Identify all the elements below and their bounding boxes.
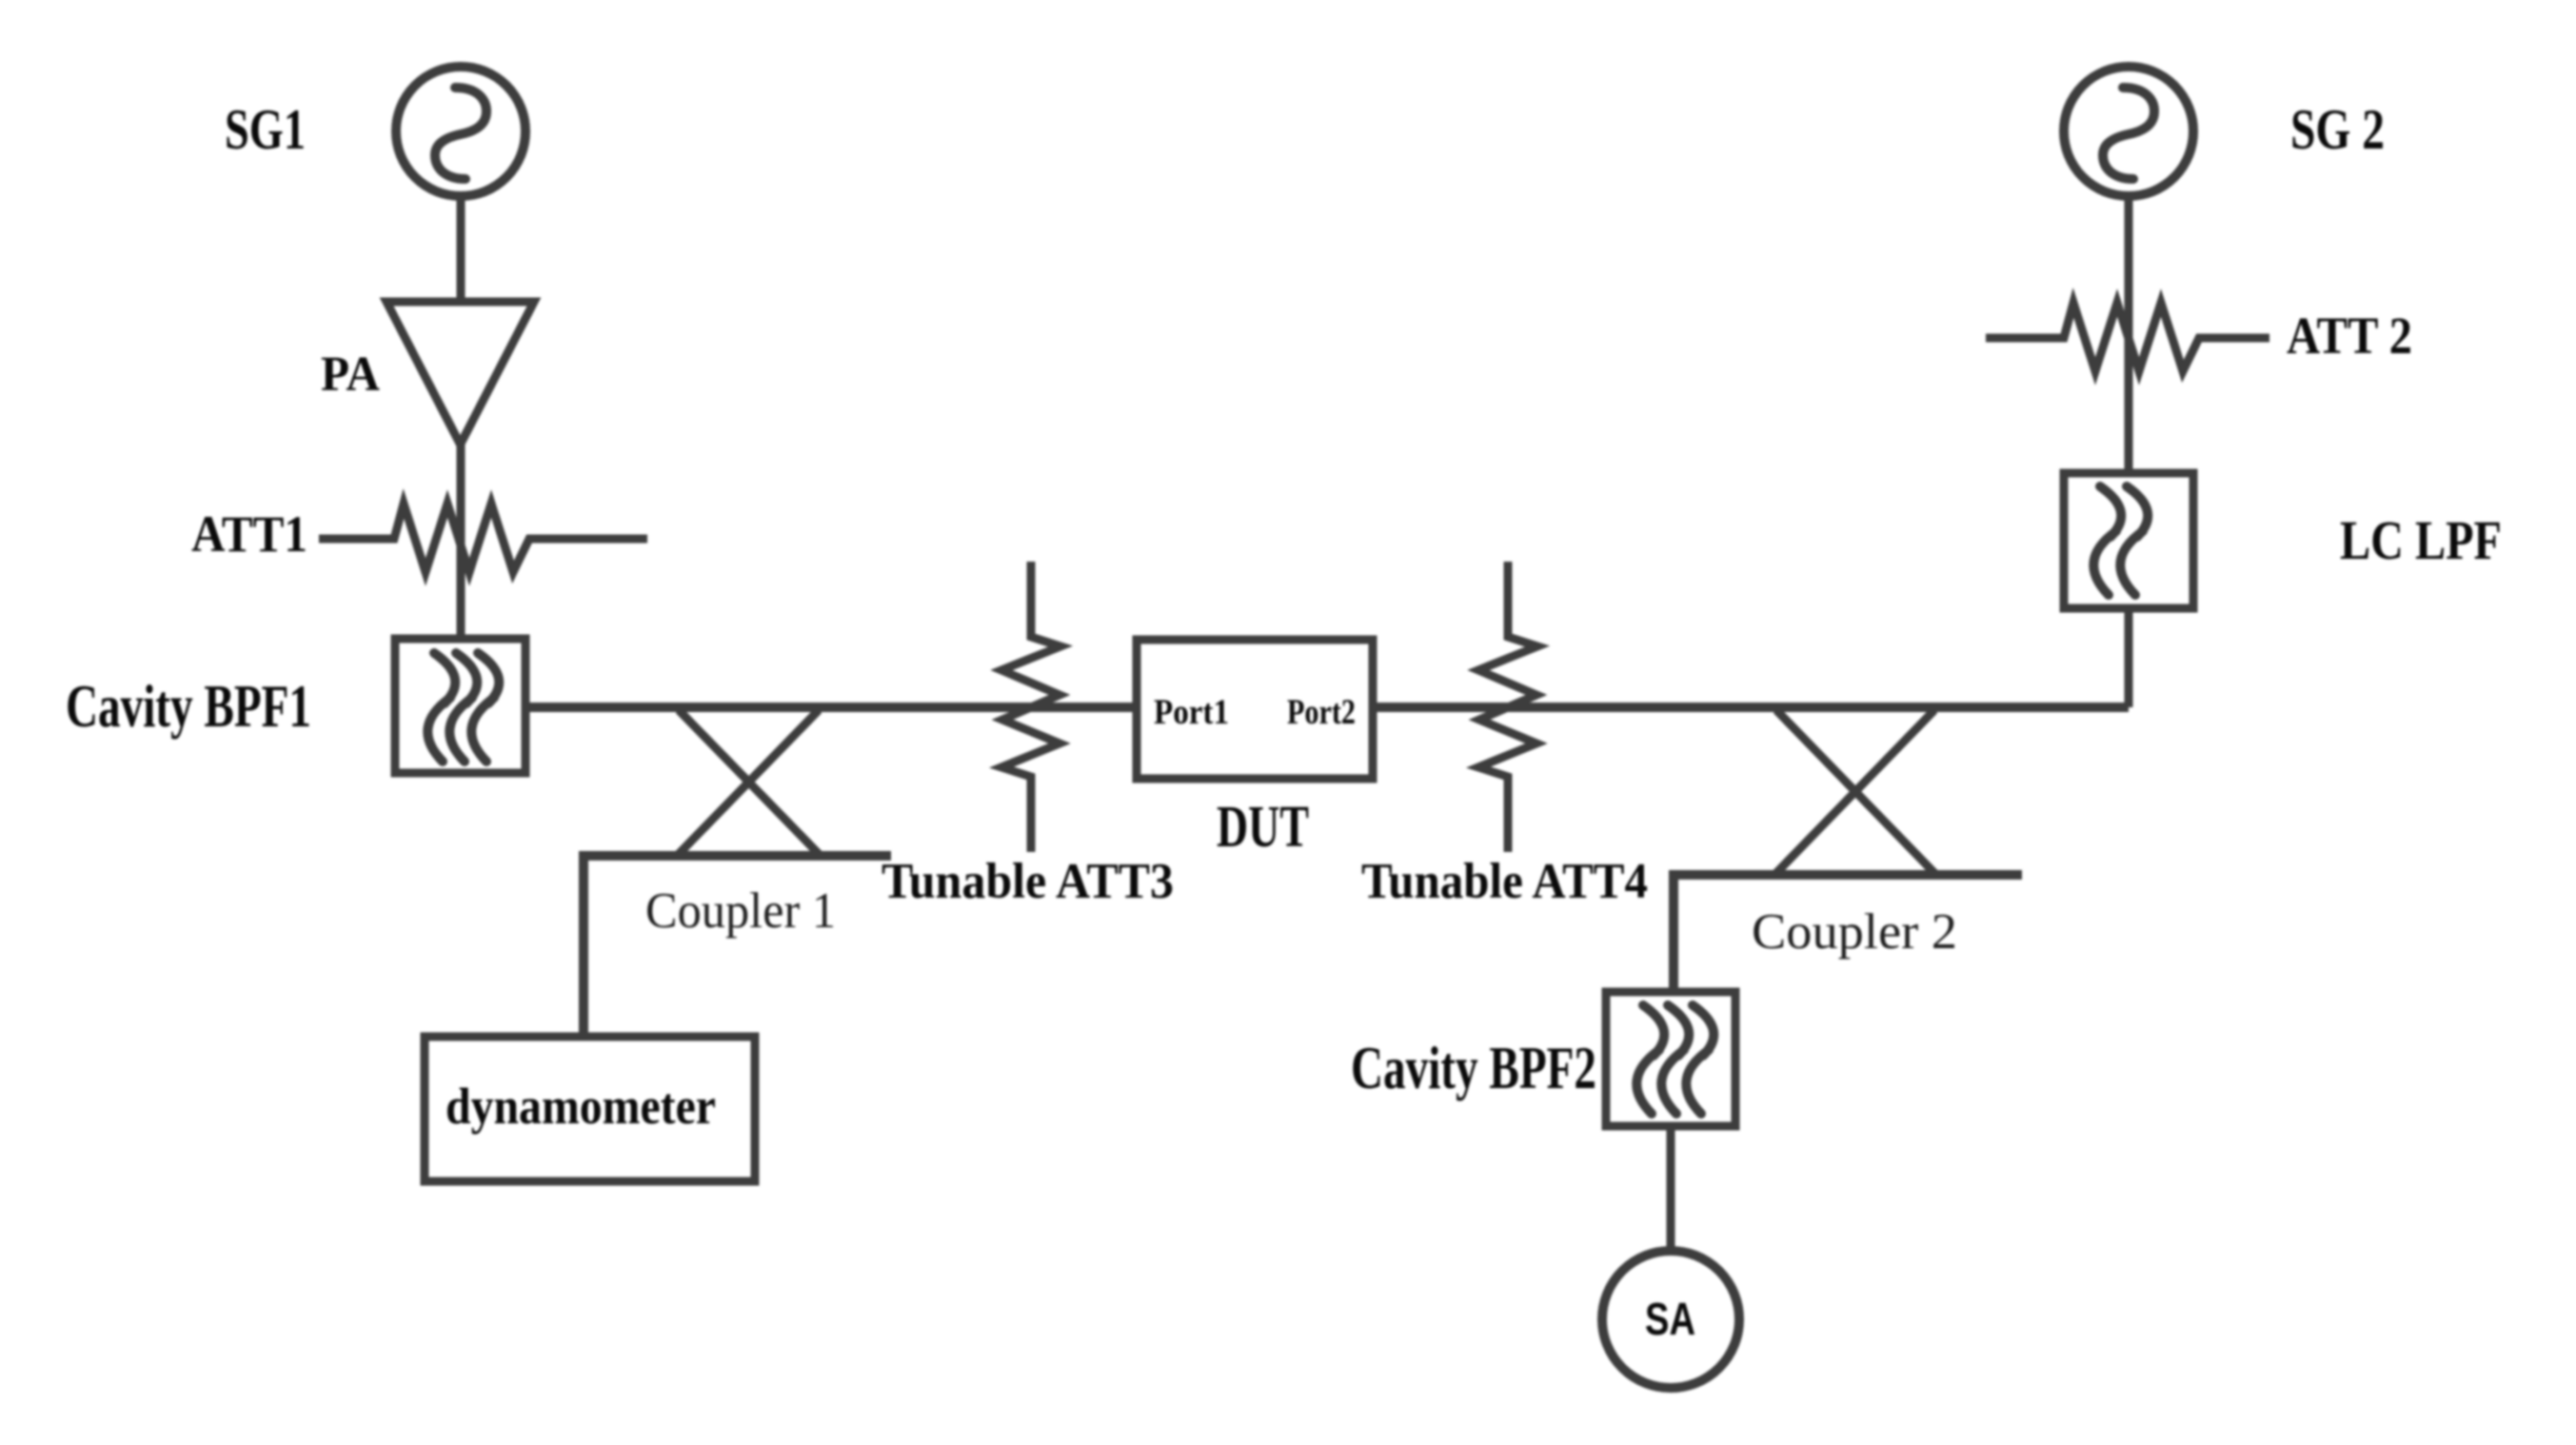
svg-text:Coupler 2: Coupler 2 xyxy=(1752,904,1957,960)
svg-text:Tunable ATT3: Tunable ATT3 xyxy=(882,854,1174,909)
svg-text:LC LPF: LC LPF xyxy=(2340,509,2502,571)
svg-text:dynamometer: dynamometer xyxy=(446,1078,716,1135)
svg-text:Cavity BPF1: Cavity BPF1 xyxy=(66,672,311,740)
svg-text:Cavity BPF2: Cavity BPF2 xyxy=(1351,1034,1596,1101)
svg-text:SA: SA xyxy=(1645,1295,1695,1345)
svg-text:ATT1: ATT1 xyxy=(191,505,307,563)
svg-text:Coupler 1: Coupler 1 xyxy=(645,883,836,939)
svg-text:DUT: DUT xyxy=(1217,795,1309,860)
svg-text:PA: PA xyxy=(321,347,380,402)
svg-text:SG1: SG1 xyxy=(225,98,306,161)
svg-text:Port2: Port2 xyxy=(1287,693,1356,732)
svg-text:Port1: Port1 xyxy=(1154,693,1229,732)
svg-text:Tunable ATT4: Tunable ATT4 xyxy=(1361,854,1648,909)
svg-text:SG 2: SG 2 xyxy=(2290,98,2385,161)
svg-text:ATT 2: ATT 2 xyxy=(2287,307,2412,365)
